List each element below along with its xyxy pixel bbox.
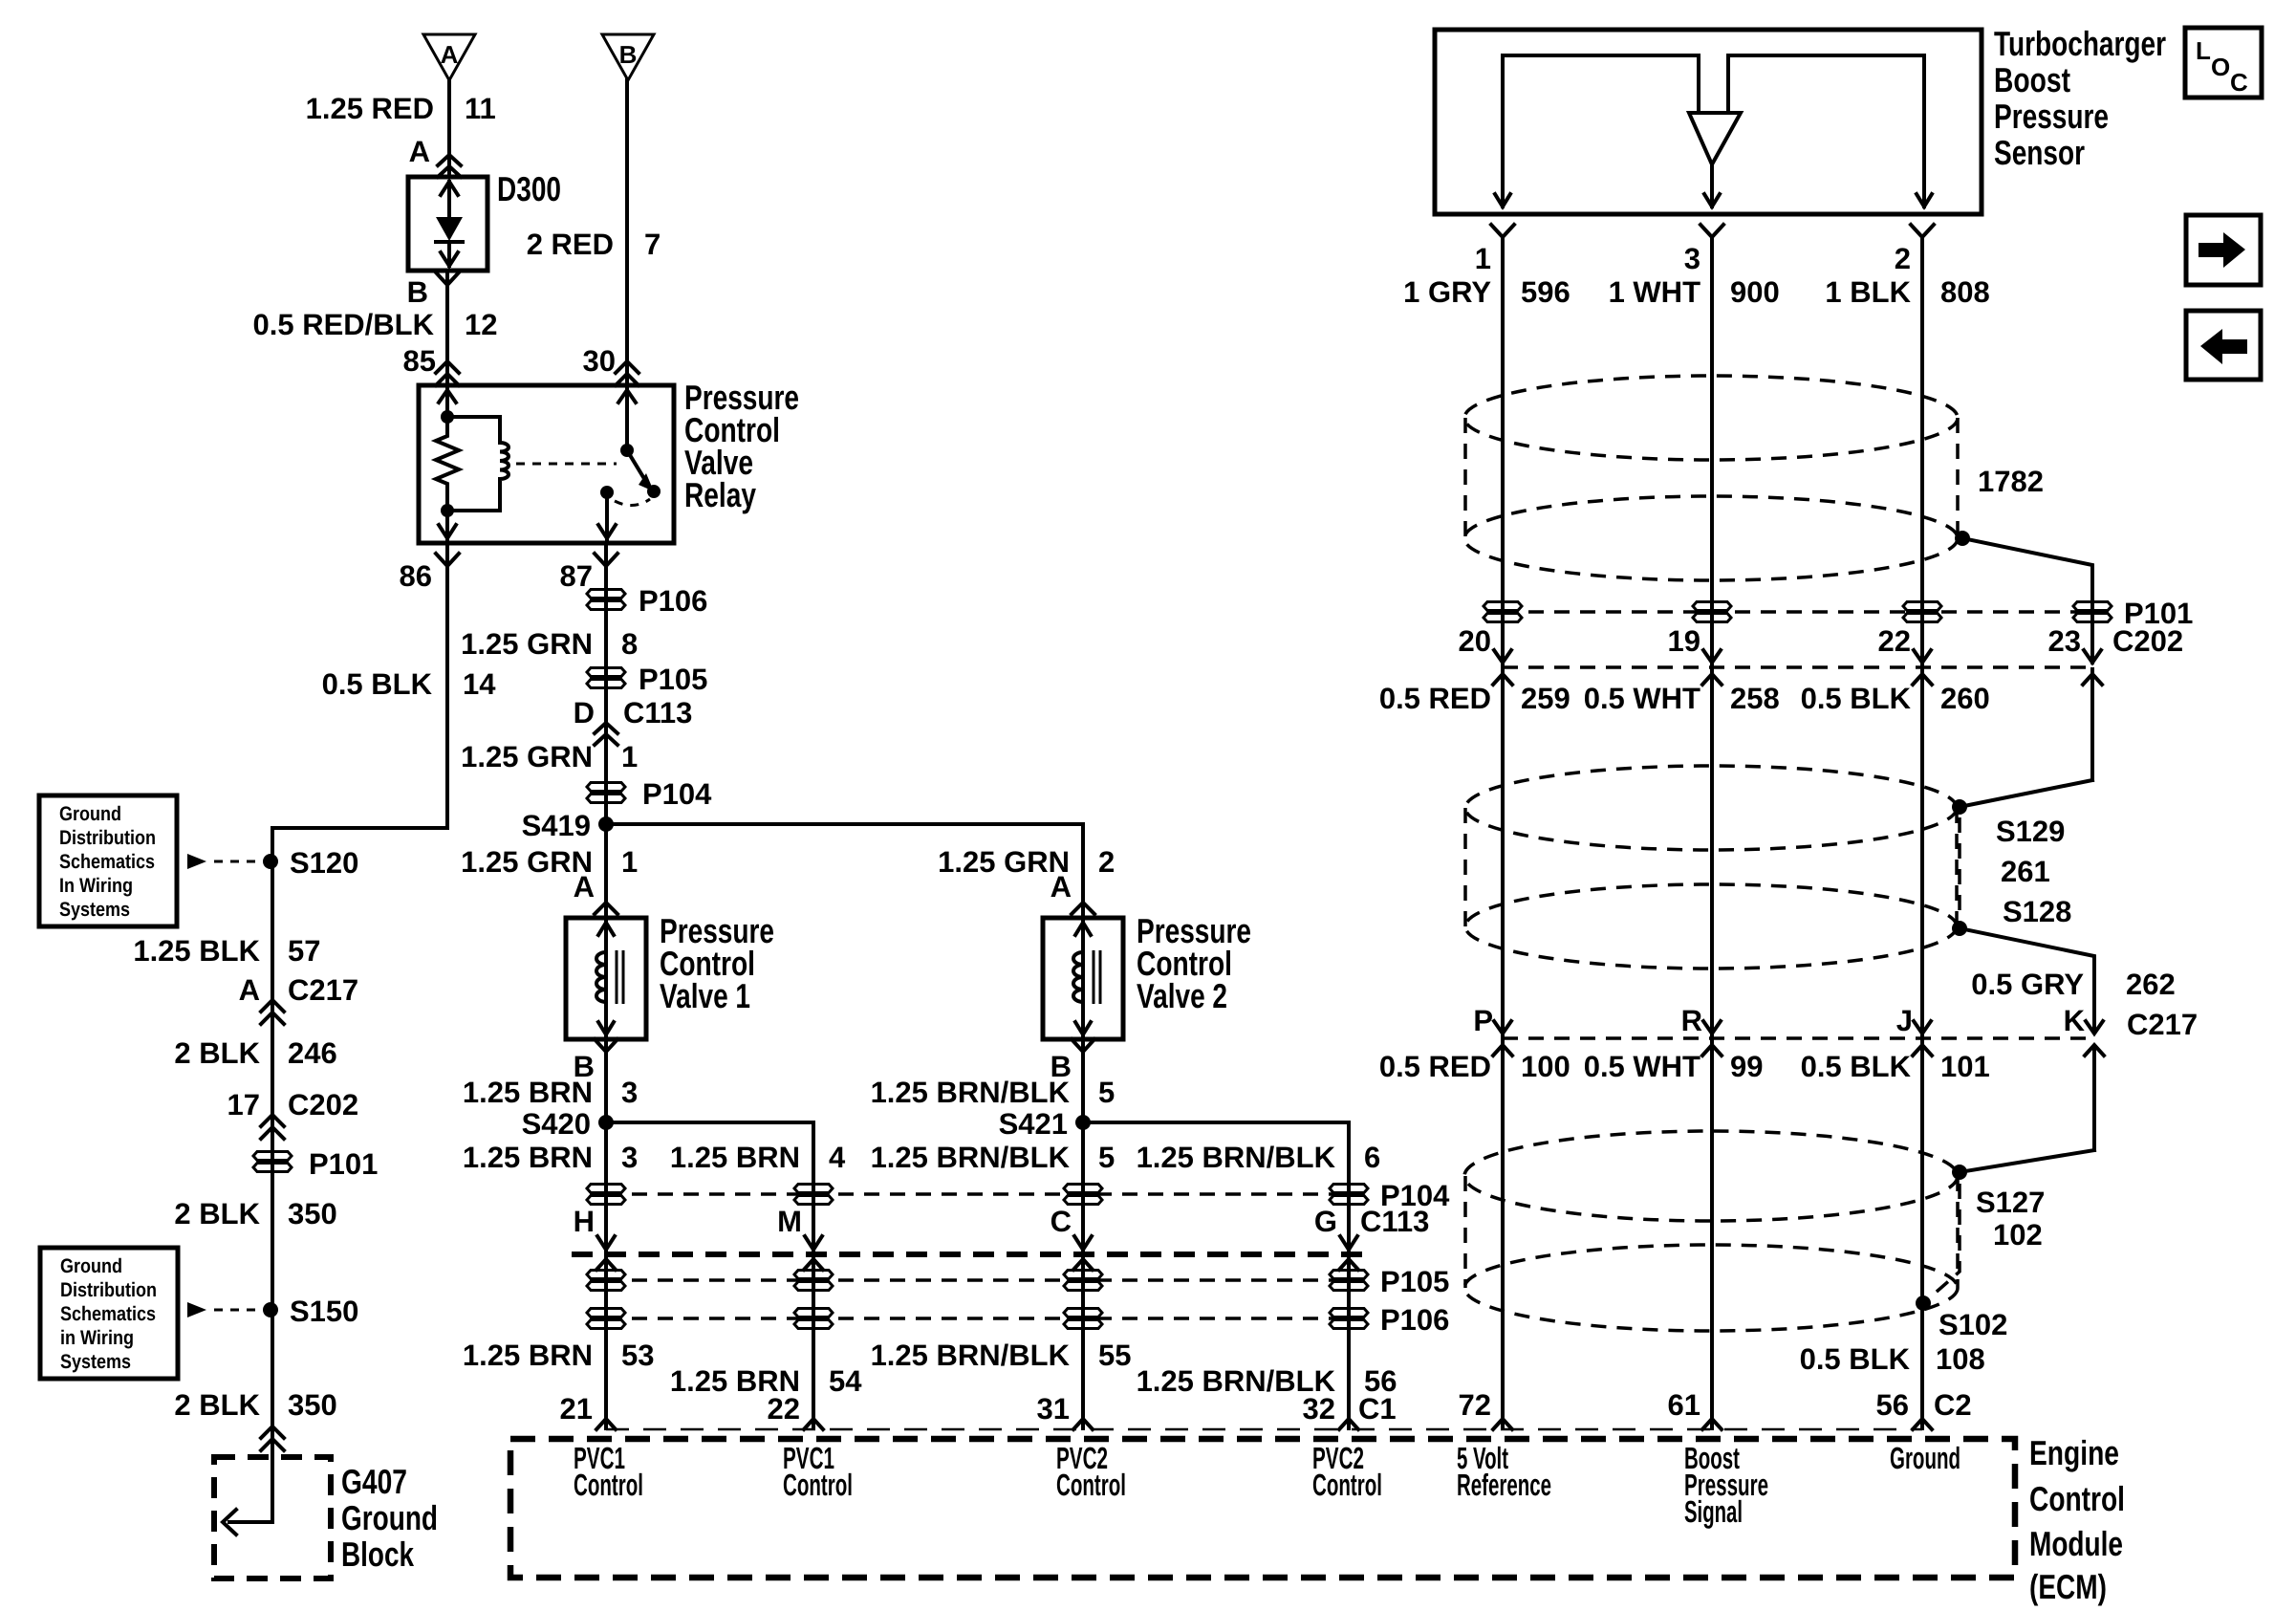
- relay pin30 internal wire: [625, 385, 629, 450]
- svg-text:B: B: [407, 275, 428, 309]
- next-page arrow: [2199, 232, 2245, 268]
- svg-text:101: 101: [1940, 1050, 1990, 1083]
- svg-text:596: 596: [1521, 275, 1570, 309]
- connector chevrons at G407: [261, 1426, 284, 1438]
- svg-text:20: 20: [1459, 624, 1491, 658]
- drain dashed 261: [1958, 817, 1961, 918]
- connector P101 left: [253, 1152, 292, 1161]
- svg-text:S421: S421: [999, 1107, 1068, 1141]
- ground distribution schematics box 1: [39, 795, 177, 926]
- svg-text:M: M: [777, 1205, 802, 1238]
- svg-text:0.5 RED: 0.5 RED: [1379, 682, 1491, 715]
- splice S421: [1075, 1115, 1091, 1130]
- svg-text:S129: S129: [1996, 815, 2065, 848]
- pin Y below D300: [436, 272, 459, 285]
- svg-text:Control: Control: [783, 1468, 853, 1502]
- sensor pin Y 3: [1700, 225, 1723, 237]
- connector row P104 dashed line: [606, 1192, 1349, 1196]
- G407 ground block box: [214, 1457, 331, 1578]
- svg-text:1.25 GRN: 1.25 GRN: [461, 740, 593, 773]
- pin Y below relay 86: [436, 554, 459, 566]
- svg-text:C202: C202: [2112, 624, 2183, 658]
- splice S127: [1952, 1165, 1967, 1180]
- svg-text:Distribution: Distribution: [60, 1279, 157, 1301]
- svg-text:0.5 BLK: 0.5 BLK: [1801, 682, 1912, 715]
- splice S128: [1952, 921, 1967, 936]
- splice S129: [1952, 799, 1967, 815]
- svg-text:A: A: [441, 40, 459, 69]
- svg-text:in Wiring: in Wiring: [60, 1327, 134, 1349]
- connector chevrons C217 left: [261, 1000, 284, 1012]
- svg-text:Ground: Ground: [1890, 1441, 1960, 1475]
- connector triangle B: [602, 34, 654, 80]
- LOC box: [2185, 28, 2262, 98]
- svg-text:A: A: [574, 870, 595, 903]
- svg-text:31: 31: [1037, 1392, 1070, 1426]
- splice S420: [598, 1115, 614, 1130]
- wire S419 branch to valve2: [606, 824, 1083, 918]
- arrow to S150: [187, 1302, 206, 1317]
- svg-text:Module: Module: [2029, 1524, 2123, 1563]
- svg-text:C217: C217: [288, 973, 358, 1007]
- svg-text:5: 5: [1098, 1141, 1115, 1174]
- wire 5V reference vertical: [1501, 237, 1505, 1428]
- svg-text:1: 1: [621, 845, 638, 879]
- connector P101 d: [2073, 602, 2112, 611]
- svg-text:C217: C217: [2127, 1008, 2198, 1041]
- svg-text:102: 102: [1993, 1218, 2043, 1252]
- svg-text:1 GRY: 1 GRY: [1403, 275, 1491, 309]
- svg-text:R: R: [1681, 1004, 1702, 1037]
- svg-text:7: 7: [644, 228, 661, 261]
- svg-text:2 BLK: 2 BLK: [174, 1036, 260, 1070]
- svg-text:260: 260: [1940, 682, 1990, 715]
- svg-text:1.25 BRN: 1.25 BRN: [670, 1141, 800, 1174]
- turbocharger boost pressure sensor box: [1435, 30, 1982, 214]
- svg-text:22: 22: [1878, 624, 1911, 658]
- svg-text:C113: C113: [1360, 1205, 1429, 1238]
- svg-text:23: 23: [2048, 624, 2081, 658]
- svg-text:1 WHT: 1 WHT: [1609, 275, 1701, 309]
- svg-text:108: 108: [1936, 1342, 1985, 1376]
- svg-text:86: 86: [400, 559, 432, 593]
- relay switch blade: [627, 450, 646, 482]
- wire from triangle B to relay 30: [625, 80, 629, 385]
- connector triangle A: [423, 34, 475, 80]
- svg-text:12: 12: [465, 308, 497, 341]
- svg-text:Boost: Boost: [1994, 60, 2070, 99]
- splice S102: [1916, 1295, 1931, 1311]
- splice S120: [263, 854, 278, 869]
- svg-text:0.5 RED/BLK: 0.5 RED/BLK: [253, 308, 435, 341]
- svg-text:Engine: Engine: [2029, 1433, 2119, 1472]
- connector chevrons valve1 A: [595, 903, 617, 914]
- wire signal vertical: [1710, 237, 1714, 1428]
- shield 1 sides: [1463, 418, 1467, 538]
- svg-text:C: C: [1051, 1205, 1072, 1238]
- connector row P105 dashed line: [606, 1278, 1349, 1282]
- svg-text:Sensor: Sensor: [1994, 133, 2085, 172]
- svg-text:A: A: [1051, 870, 1072, 903]
- ECM entry chevron at x634: [596, 1419, 616, 1429]
- relay switch travel arc: [615, 499, 650, 506]
- shield 3 top rim: [1464, 1131, 1958, 1221]
- connector P106 at x1133: [1064, 1309, 1102, 1317]
- connector P104 at x1133: [1064, 1185, 1102, 1193]
- connector P104 upper: [587, 783, 625, 792]
- svg-text:350: 350: [288, 1197, 337, 1230]
- svg-text:808: 808: [1940, 275, 1990, 309]
- connector C217 crossing at x1791: [1703, 1021, 1721, 1034]
- svg-text:D: D: [574, 696, 595, 729]
- connector P106 at x1411: [1330, 1309, 1368, 1317]
- svg-text:2: 2: [1098, 845, 1115, 879]
- prev-page arrow box: [2186, 311, 2261, 380]
- svg-text:19: 19: [1668, 624, 1700, 658]
- connector C202 crossing at x2189: [2084, 650, 2101, 663]
- connector P104 at x634: [587, 1185, 625, 1193]
- svg-text:53: 53: [621, 1339, 654, 1372]
- svg-text:P101: P101: [309, 1147, 378, 1181]
- svg-text:Control: Control: [1312, 1468, 1382, 1502]
- ECM entry chevron at x1133: [1073, 1419, 1093, 1429]
- pressure control valve 2: [1043, 918, 1123, 1039]
- svg-text:1.25 BRN: 1.25 BRN: [463, 1339, 593, 1372]
- svg-text:B: B: [619, 40, 638, 69]
- ECM entry chevron at x851: [804, 1419, 823, 1429]
- svg-text:Reference: Reference: [1457, 1468, 1551, 1502]
- pressure control valve relay box: [419, 385, 674, 543]
- arrow to S120: [187, 854, 206, 869]
- wire valve2 down: [1081, 1039, 1085, 1428]
- ECM entry chevron at x1411: [1339, 1419, 1358, 1429]
- wire ground vertical: [1920, 237, 1924, 1428]
- svg-text:P105: P105: [639, 663, 707, 696]
- svg-text:30: 30: [583, 344, 616, 378]
- connector P105 at x1133: [1064, 1271, 1102, 1279]
- svg-text:0.5 BLK: 0.5 BLK: [1801, 1050, 1912, 1083]
- svg-text:1.25 RED: 1.25 RED: [306, 92, 434, 125]
- shield 1 drain junction dot: [1955, 531, 1970, 546]
- svg-text:S120: S120: [290, 846, 358, 880]
- svg-text:1.25 BLK: 1.25 BLK: [133, 934, 260, 968]
- connector P105 at x634: [587, 1271, 625, 1279]
- connector row C202 dashed line: [1503, 665, 2092, 669]
- ECM entry chevron at x2011: [1913, 1419, 1932, 1429]
- sensor pin Y 2: [1911, 225, 1934, 237]
- connector C113 crossing at x851: [805, 1236, 822, 1250]
- svg-text:1.25 BRN/BLK: 1.25 BRN/BLK: [1137, 1141, 1336, 1174]
- svg-text:1 BLK: 1 BLK: [1825, 275, 1911, 309]
- connector P101 a: [1484, 602, 1522, 611]
- svg-text:In Wiring: In Wiring: [59, 875, 133, 897]
- sensor pin Y 1: [1491, 225, 1514, 237]
- relay coil top junction dot: [441, 410, 454, 424]
- svg-text:C202: C202: [288, 1088, 358, 1121]
- svg-text:G407: G407: [341, 1462, 407, 1501]
- drain wire to P101: [1962, 538, 2092, 663]
- sensor element triangle: [1689, 113, 1741, 164]
- connector C217 crossing at x2011: [1914, 1021, 1931, 1034]
- svg-text:Systems: Systems: [59, 899, 130, 921]
- svg-text:1.25 GRN: 1.25 GRN: [461, 627, 593, 661]
- shield 2 bottom rim: [1465, 884, 1957, 969]
- svg-text:2: 2: [1895, 242, 1911, 275]
- connector P104 at x1411: [1330, 1185, 1368, 1193]
- svg-text:2 RED: 2 RED: [527, 228, 614, 261]
- connector chevrons valve2 A: [1072, 903, 1094, 914]
- svg-text:A: A: [409, 135, 430, 168]
- svg-text:2 BLK: 2 BLK: [174, 1197, 260, 1230]
- svg-text:Valve 2: Valve 2: [1137, 976, 1227, 1015]
- svg-text:900: 900: [1730, 275, 1780, 309]
- svg-text:258: 258: [1730, 682, 1780, 715]
- connector P101 b: [1693, 602, 1731, 611]
- svg-text:99: 99: [1730, 1050, 1763, 1083]
- svg-text:S127: S127: [1976, 1186, 2045, 1219]
- svg-text:1.25 BRN: 1.25 BRN: [463, 1076, 593, 1109]
- relay common contact dot: [600, 486, 614, 499]
- svg-text:0.5 BLK: 0.5 BLK: [1800, 1342, 1911, 1376]
- svg-text:21: 21: [560, 1392, 593, 1426]
- wire S128 to K: [1960, 928, 2094, 1032]
- connector C202 crossing at x1791: [1703, 650, 1721, 663]
- relay pin85 internal wire: [445, 385, 449, 417]
- diode D300 symbol: [441, 182, 458, 195]
- connector P105 at x1411: [1330, 1271, 1368, 1279]
- svg-text:Distribution: Distribution: [59, 827, 156, 849]
- svg-text:262: 262: [2126, 968, 2176, 1001]
- svg-text:17: 17: [227, 1088, 260, 1121]
- svg-text:S419: S419: [522, 809, 591, 842]
- wire diagonal to S127: [1960, 1150, 2094, 1172]
- sensor internal circuit: [1503, 55, 1699, 207]
- svg-text:Pressure: Pressure: [1994, 97, 2109, 136]
- splice S150: [263, 1302, 278, 1317]
- ECM entry dashed line: [606, 1428, 1922, 1431]
- svg-text:Signal: Signal: [1684, 1494, 1743, 1529]
- svg-text:61: 61: [1668, 1388, 1700, 1422]
- svg-text:32: 32: [1303, 1392, 1335, 1426]
- svg-text:S128: S128: [2003, 895, 2071, 928]
- wire S421 branch: [1083, 1122, 1349, 1428]
- svg-text:Schematics: Schematics: [60, 1303, 156, 1325]
- pin Y below valve1: [595, 1039, 617, 1052]
- svg-text:1: 1: [1475, 242, 1491, 275]
- svg-text:55: 55: [1098, 1339, 1131, 1372]
- svg-text:0.5 GRY: 0.5 GRY: [1971, 968, 2084, 1001]
- svg-text:11: 11: [465, 92, 496, 125]
- svg-text:87: 87: [560, 559, 593, 593]
- pin Y below valve2: [1072, 1039, 1094, 1052]
- svg-text:0.5 WHT: 0.5 WHT: [1584, 1050, 1700, 1083]
- svg-text:C2: C2: [1934, 1388, 1972, 1422]
- ECM entry chevron at x1572: [1493, 1419, 1512, 1429]
- relay pin86 exit arrow: [445, 511, 449, 541]
- svg-text:350: 350: [288, 1388, 337, 1422]
- connector row P101 dashed line: [1503, 610, 2092, 614]
- shield 2 sides: [1463, 808, 1467, 926]
- svg-text:D300: D300: [497, 169, 561, 208]
- svg-text:A: A: [239, 973, 260, 1007]
- svg-text:1782: 1782: [1978, 465, 2044, 498]
- svg-text:1.25 BRN/BLK: 1.25 BRN/BLK: [871, 1141, 1071, 1174]
- next-page arrow box: [2186, 215, 2261, 285]
- pressure control valve 1: [566, 918, 646, 1039]
- svg-text:Schematics: Schematics: [59, 851, 155, 873]
- connector P106 at x851: [794, 1309, 833, 1317]
- wire S420 branch: [606, 1122, 813, 1428]
- svg-text:Relay: Relay: [684, 475, 756, 514]
- connector chevrons at relay pin 30: [616, 361, 639, 373]
- connector C217 crossing at x1572: [1494, 1021, 1511, 1034]
- svg-text:G: G: [1314, 1205, 1337, 1238]
- svg-text:8: 8: [621, 627, 638, 661]
- K wire below C217: [2092, 1046, 2096, 1150]
- svg-text:54: 54: [829, 1364, 862, 1398]
- svg-text:3: 3: [621, 1076, 638, 1109]
- connector P101 c: [1903, 602, 1941, 611]
- connector chevrons C113 upper: [595, 723, 617, 733]
- svg-text:C1: C1: [1358, 1392, 1397, 1426]
- svg-text:100: 100: [1521, 1050, 1570, 1083]
- svg-text:3: 3: [621, 1141, 638, 1174]
- svg-text:P: P: [1473, 1004, 1493, 1037]
- svg-text:Block: Block: [341, 1535, 415, 1574]
- ECM entry chevron at x1791: [1702, 1419, 1722, 1429]
- shield 3 sides: [1463, 1176, 1467, 1288]
- svg-text:Ground: Ground: [60, 1255, 122, 1277]
- svg-text:Valve 1: Valve 1: [660, 976, 750, 1015]
- connector C113 crossing at x1133: [1074, 1236, 1092, 1250]
- svg-text:Control: Control: [574, 1468, 643, 1502]
- relay coil bottom junction dot: [441, 504, 454, 517]
- diode D300 box: [408, 177, 487, 271]
- connector P105 upper: [587, 668, 625, 677]
- svg-text:Ground: Ground: [341, 1498, 438, 1537]
- svg-text:4: 4: [829, 1141, 846, 1174]
- svg-text:Turbocharger: Turbocharger: [1994, 24, 2166, 63]
- svg-text:C113: C113: [623, 696, 692, 729]
- engine control module box: [510, 1439, 2015, 1578]
- connector chevrons at D300 pin A: [438, 155, 461, 165]
- svg-text:J: J: [1896, 1004, 1913, 1037]
- svg-text:P104: P104: [642, 777, 712, 811]
- svg-text:56: 56: [1876, 1388, 1909, 1422]
- svg-text:85: 85: [403, 344, 436, 378]
- svg-text:C: C: [2230, 68, 2248, 97]
- svg-text:1.25 BRN: 1.25 BRN: [463, 1141, 593, 1174]
- shield 1 bottom rim: [1464, 496, 1958, 580]
- drain wire below C202: [2090, 669, 2094, 780]
- shield 1 top rim: [1464, 376, 1958, 460]
- connector P105 at x851: [794, 1271, 833, 1279]
- connector C113 crossing at x634: [597, 1236, 615, 1250]
- connector row C217 dashed line: [1503, 1036, 2094, 1040]
- shield 2 top rim: [1465, 766, 1957, 850]
- svg-text:72: 72: [1459, 1388, 1491, 1422]
- pin Y below relay 87: [595, 554, 617, 566]
- relay coil: [500, 417, 509, 511]
- svg-text:0.5 WHT: 0.5 WHT: [1584, 682, 1700, 715]
- connector row P106 dashed line: [606, 1317, 1349, 1320]
- splice S419: [598, 816, 614, 832]
- svg-text:3: 3: [1684, 242, 1700, 275]
- svg-text:K: K: [2064, 1004, 2086, 1037]
- connector P106 at x634: [587, 1309, 625, 1317]
- svg-text:O: O: [2211, 53, 2230, 81]
- prev-page arrow: [2200, 329, 2247, 364]
- svg-text:P106: P106: [1380, 1303, 1449, 1337]
- svg-text:1: 1: [621, 740, 638, 773]
- drain diagonal to S129: [1960, 780, 2092, 807]
- svg-text:246: 246: [288, 1036, 337, 1070]
- relay switch pivot dot: [620, 444, 634, 457]
- svg-text:1.25 BRN/BLK: 1.25 BRN/BLK: [871, 1339, 1071, 1372]
- svg-text:1.25 BRN/BLK: 1.25 BRN/BLK: [871, 1076, 1071, 1109]
- ground distribution schematics box 2: [40, 1248, 178, 1379]
- svg-text:(ECM): (ECM): [2029, 1567, 2107, 1606]
- connector chevrons at relay pin 85: [436, 361, 459, 373]
- svg-text:6: 6: [1364, 1141, 1380, 1174]
- svg-text:0.5 RED: 0.5 RED: [1379, 1050, 1491, 1083]
- svg-text:S150: S150: [290, 1295, 358, 1328]
- wire 87 vertical: [604, 543, 608, 1428]
- relay resistor: [436, 417, 459, 511]
- connector chevrons C202 left: [261, 1115, 284, 1126]
- svg-text:22: 22: [768, 1392, 800, 1426]
- connector C217 crossing at x2191: [2086, 1021, 2103, 1034]
- svg-text:261: 261: [2001, 855, 2050, 888]
- connector C202 crossing at x1572: [1494, 650, 1511, 663]
- wire D300-B to relay 85: [445, 271, 449, 385]
- svg-text:Ground: Ground: [59, 803, 121, 825]
- svg-text:Systems: Systems: [60, 1351, 131, 1373]
- connector C202 crossing at x2011: [1914, 650, 1931, 663]
- drain dashed 102: [1929, 1184, 1960, 1298]
- svg-text:Control: Control: [2029, 1479, 2125, 1518]
- shield 3 bottom rim: [1464, 1245, 1958, 1331]
- svg-text:P106: P106: [639, 584, 707, 618]
- wire 86 down and left to G407: [229, 543, 447, 1522]
- connector P106 upper: [587, 590, 625, 599]
- connector C113 dashed line: [572, 1252, 1375, 1257]
- svg-text:0.5 BLK: 0.5 BLK: [322, 667, 433, 701]
- svg-text:S420: S420: [522, 1107, 591, 1141]
- svg-text:5: 5: [1098, 1076, 1115, 1109]
- svg-text:L: L: [2196, 36, 2211, 65]
- relay pin87 internal wire: [605, 492, 609, 541]
- connector P104 at x851: [794, 1185, 833, 1193]
- svg-text:259: 259: [1521, 682, 1570, 715]
- svg-text:P105: P105: [1380, 1265, 1449, 1298]
- svg-text:S102: S102: [1939, 1308, 2007, 1341]
- svg-text:Control: Control: [1056, 1468, 1126, 1502]
- svg-text:2 BLK: 2 BLK: [174, 1388, 260, 1422]
- svg-text:57: 57: [288, 934, 320, 968]
- relay coil-to-switch dashed link: [516, 463, 617, 466]
- svg-text:14: 14: [463, 667, 496, 701]
- svg-text:H: H: [574, 1205, 595, 1238]
- wire from triangle A to D300: [447, 80, 451, 177]
- connector C113 crossing at x1411: [1340, 1236, 1357, 1250]
- G407 hook arrow: [223, 1510, 236, 1535]
